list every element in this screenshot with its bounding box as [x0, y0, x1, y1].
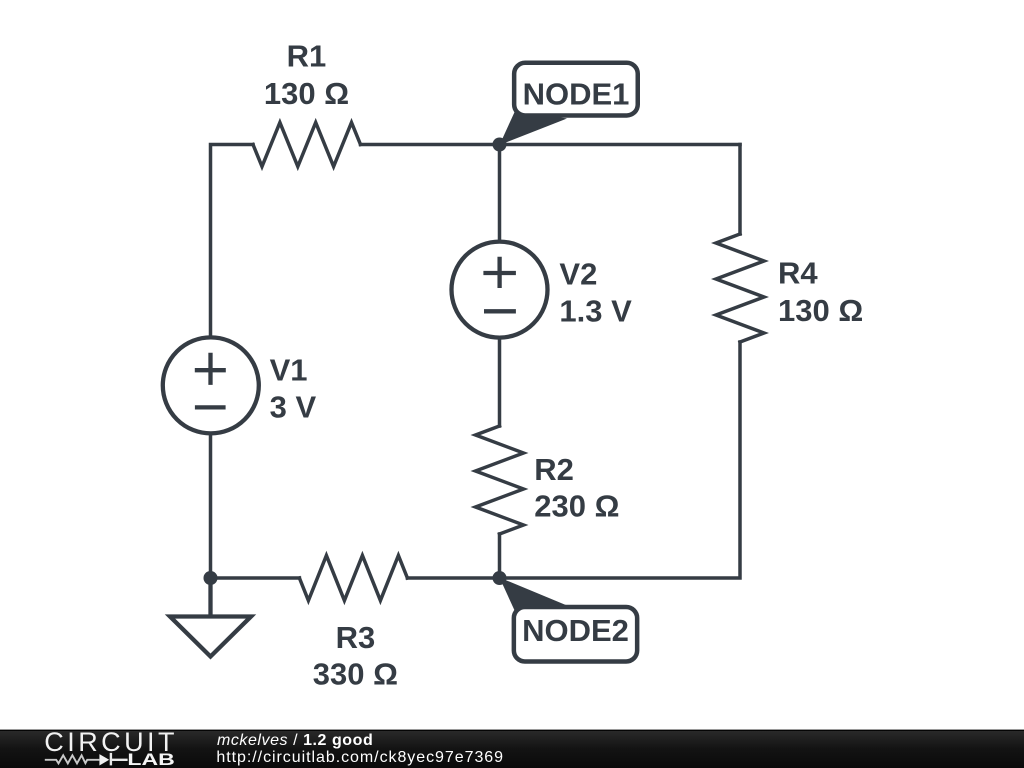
- svg-text:NODE2: NODE2: [522, 613, 629, 648]
- logo schematic: diode triangle: [99, 754, 109, 765]
- resistor R3 (zigzag): [299, 556, 407, 601]
- svg-text:NODE1: NODE1: [523, 77, 630, 112]
- V1 plus sign: [195, 353, 226, 385]
- logo schematic: wire + resistor zigzag: [45, 755, 100, 763]
- ground symbol triangle: [170, 617, 251, 657]
- svg-text:LAB: LAB: [127, 751, 174, 768]
- wire: bottom-left from ground junction to R3 left terminal: [211, 576, 300, 580]
- V1 minus sign: [195, 405, 226, 409]
- svg-text:3 V: 3 V: [270, 390, 317, 425]
- svg-text:V1: V1: [270, 353, 308, 388]
- svg-text:R1: R1: [287, 39, 327, 74]
- svg-text:1.3 V: 1.3 V: [559, 294, 632, 329]
- wire: left branch (V1 top to top-left corner to R1 left terminal): [211, 145, 254, 337]
- wire: top from R1 right terminal through NODE1 junction to top-right corner: [361, 143, 741, 147]
- junction dot at NODE2: [493, 571, 507, 585]
- svg-text:130 Ω: 130 Ω: [264, 76, 349, 111]
- wire: middle vertical from V2 bottom to R2 top: [498, 338, 502, 426]
- svg-text:330 Ω: 330 Ω: [313, 657, 398, 692]
- junction dot at ground/bottom-left: [204, 571, 218, 585]
- svg-text:mckelves / 1.2 good: mckelves / 1.2 good: [217, 732, 373, 749]
- svg-text:230 Ω: 230 Ω: [534, 489, 619, 524]
- wire: right vertical from top corner to R4 top terminal: [738, 145, 742, 235]
- node NODE2 callout tail: [500, 578, 568, 613]
- wire: middle vertical from R2 bottom to NODE2 junction: [498, 534, 502, 578]
- wire: middle vertical from NODE1 junction down to V2 top: [498, 145, 502, 242]
- V2 minus sign: [484, 309, 516, 313]
- resistor R2 (vertical zigzag): [476, 426, 524, 534]
- node NODE1 callout tail: [500, 110, 568, 145]
- ground symbol stub: [208, 578, 212, 617]
- svg-text:R2: R2: [534, 452, 574, 487]
- svg-text:R3: R3: [336, 620, 376, 655]
- node NODE2 callout box: [514, 607, 637, 661]
- svg-text:130 Ω: 130 Ω: [778, 293, 863, 328]
- logo schematic: diode bar and wire to LAB: [111, 753, 128, 766]
- node NODE1 callout box: [514, 63, 638, 116]
- svg-text:http://circuitlab.com/ck8yec97: http://circuitlab.com/ck8yec97e7369: [216, 749, 504, 766]
- voltage source V1 (circle): [163, 337, 259, 433]
- V2 plus sign: [483, 257, 516, 288]
- svg-text:V2: V2: [559, 257, 597, 292]
- resistor R4 (vertical zigzag): [716, 234, 764, 342]
- resistor R1 (zigzag): [253, 123, 361, 167]
- wire: right vertical from R4 bottom to bottom-right corner: [407, 342, 740, 578]
- svg-text:R4: R4: [778, 255, 818, 290]
- voltage source V2 (circle): [452, 242, 548, 338]
- wire: left vertical from V1 bottom to ground junction: [209, 434, 213, 578]
- junction dot at NODE1: [493, 138, 507, 152]
